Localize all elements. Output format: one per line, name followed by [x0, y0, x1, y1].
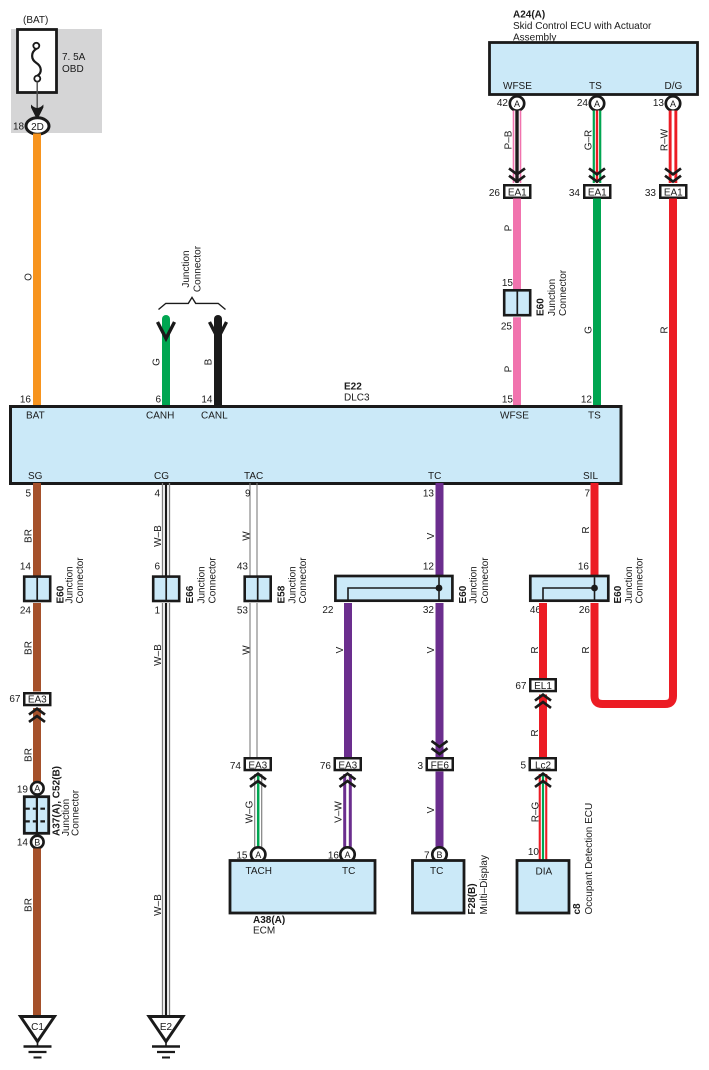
arrowhead CANH: [158, 322, 175, 339]
svg-text:E60: E60: [536, 298, 547, 316]
svg-text:10: 10: [528, 847, 540, 858]
wire R (red) EL1 to Lc2: [539, 695, 547, 759]
svg-text:G: G: [584, 326, 595, 334]
svg-text:74: 74: [230, 761, 242, 772]
wire V (violet) E60 pin22 to EA3 76: [344, 603, 352, 758]
svg-text:EA1: EA1: [588, 188, 607, 199]
ECU c8 Occupant Detection ECU: [517, 803, 595, 915]
pin B circle TC (Multi-Display): [432, 847, 446, 861]
wire G (green) EA1 to E22 pin 12: [593, 199, 601, 408]
svg-text:SG: SG: [28, 471, 43, 482]
svg-text:Connector: Connector: [635, 557, 646, 604]
DLC3 connector E22: [11, 382, 622, 484]
ground C1: [21, 1017, 55, 1058]
wire BR (brown) E22 SG to E60 junction: [33, 483, 41, 576]
svg-text:E60: E60: [458, 585, 469, 603]
svg-text:ECM: ECM: [253, 926, 275, 937]
svg-text:Connector: Connector: [298, 557, 309, 604]
arrow into 2D: [31, 105, 43, 121]
svg-text:43: 43: [237, 562, 249, 573]
svg-text:OBD: OBD: [62, 64, 84, 75]
junction connector A37(A), C52(B): [24, 797, 48, 834]
svg-text:6: 6: [155, 395, 161, 406]
arrow out of EA3 74 (up): [250, 774, 266, 787]
svg-text:R–G: R–G: [531, 801, 542, 822]
pin A circle A37: [31, 782, 44, 795]
svg-text:Connector: Connector: [193, 245, 204, 292]
svg-text:TC: TC: [428, 471, 441, 482]
svg-text:Occupant Detection ECU: Occupant Detection ECU: [584, 803, 595, 915]
brace junction connector: [159, 297, 226, 309]
svg-text:A: A: [344, 850, 350, 860]
wire G (green) CANH: [162, 319, 170, 407]
svg-text:22: 22: [322, 605, 334, 616]
wire BR (brown) E60 to EA3: [33, 603, 41, 692]
label Junction Connector (CAN): [181, 245, 204, 292]
svg-text:BR: BR: [24, 748, 35, 762]
junction connector E60 (red, wide): [530, 576, 608, 601]
wire O (orange) BAT to E22 pin 16: [33, 134, 41, 408]
svg-text:BAT: BAT: [26, 411, 45, 422]
label A37(A), C52(B) Junction Connector: [52, 766, 82, 836]
svg-text:W: W: [242, 531, 253, 541]
arrow out of EA3 76 (up): [340, 774, 356, 787]
svg-text:Junction: Junction: [197, 566, 208, 603]
label E60 Junction Connector (pink): [536, 269, 570, 316]
svg-text:W–G: W–G: [245, 800, 256, 823]
svg-text:16: 16: [20, 395, 32, 406]
svg-text:SIL: SIL: [583, 471, 598, 482]
svg-text:26: 26: [489, 188, 501, 199]
svg-text:E22: E22: [344, 382, 362, 393]
svg-text:13: 13: [653, 98, 665, 109]
label E66 Junction Connector: [185, 557, 219, 604]
svg-text:Connector: Connector: [208, 557, 219, 604]
svg-text:12: 12: [581, 395, 593, 406]
wire V (violet) E22 TC to E60 junction: [436, 483, 444, 576]
label E60 Junction Connector (violet): [458, 557, 491, 604]
svg-text:P: P: [504, 224, 515, 231]
svg-text:EA3: EA3: [338, 761, 357, 772]
svg-text:32: 32: [423, 605, 435, 616]
svg-text:W–B: W–B: [153, 644, 164, 666]
svg-text:WFSE: WFSE: [500, 411, 529, 422]
junction connector E60 (brown): [24, 577, 50, 601]
svg-text:E58: E58: [277, 585, 288, 603]
wire R (red) EA1 33 down, bend left to E60 pin 26: [595, 199, 674, 705]
svg-text:67: 67: [515, 681, 527, 692]
svg-text:26: 26: [579, 605, 591, 616]
svg-text:R: R: [530, 646, 541, 653]
pin A circle D/G: [666, 96, 680, 110]
wire R (red) E60 pin46 to EL1: [539, 603, 547, 679]
svg-text:G: G: [152, 358, 163, 366]
ground E2: [149, 1017, 183, 1058]
svg-text:1: 1: [154, 606, 160, 617]
svg-text:5: 5: [520, 761, 526, 772]
svg-text:24: 24: [577, 98, 589, 109]
svg-text:A: A: [514, 99, 520, 109]
arrow out of EL1 (up): [535, 695, 551, 708]
arrow into EA1 34: [589, 168, 605, 181]
svg-text:R: R: [530, 729, 541, 736]
svg-text:7. 5A: 7. 5A: [62, 52, 86, 63]
svg-text:13: 13: [423, 489, 435, 500]
svg-text:W–B: W–B: [153, 525, 164, 547]
ECU A38(A) ECM: [230, 861, 375, 937]
svg-text:24: 24: [20, 606, 32, 617]
svg-text:A: A: [594, 99, 600, 109]
arrow into FE6 (down): [432, 741, 448, 754]
svg-text:A24(A): A24(A): [513, 10, 545, 21]
svg-text:EA1: EA1: [508, 188, 527, 199]
svg-text:TC: TC: [342, 866, 355, 877]
svg-text:EA1: EA1: [664, 188, 683, 199]
wire V (violet) FE6 to Multi-Display TC: [436, 772, 444, 849]
label E58 Junction Connector: [277, 557, 310, 604]
svg-text:B: B: [436, 850, 442, 860]
wire V-W (violet/white) EA3 to ECM TC: [343, 774, 352, 848]
svg-text:BR: BR: [24, 641, 35, 655]
svg-text:c8: c8: [572, 903, 583, 915]
junction connector E60 (pink): [504, 290, 530, 315]
svg-text:O: O: [24, 273, 35, 281]
svg-text:TS: TS: [588, 411, 601, 422]
svg-text:E60: E60: [613, 585, 624, 603]
svg-text:16: 16: [578, 562, 590, 573]
pin A circle WFSE: [510, 96, 524, 110]
wire V (violet) E60 pin32 to FE6: [436, 603, 444, 758]
svg-text:53: 53: [237, 606, 249, 617]
svg-text:V: V: [335, 646, 346, 653]
wire G-R (green/red) TS to EA1: [593, 111, 602, 184]
svg-text:W–B: W–B: [153, 894, 164, 916]
svg-text:76: 76: [320, 761, 332, 772]
svg-text:14: 14: [20, 562, 32, 573]
svg-text:V: V: [426, 532, 437, 539]
svg-text:BR: BR: [24, 529, 35, 543]
svg-text:67: 67: [9, 694, 21, 705]
wire W-B (white/black) E66 to ground E2: [163, 603, 170, 1016]
svg-text:18: 18: [13, 122, 25, 133]
svg-text:P: P: [504, 365, 515, 372]
wire W (white) E22 TAC to E58 junction: [250, 483, 257, 576]
svg-text:G–R: G–R: [584, 130, 595, 151]
ECU F28(B) Multi-Display: [413, 855, 491, 914]
svg-text:R–W: R–W: [660, 128, 671, 151]
arrow out of Lc2 (up): [535, 774, 551, 787]
svg-text:V: V: [426, 806, 437, 813]
wire P-B (pink/black) WFSE to EA1: [513, 111, 522, 184]
svg-text:W: W: [242, 645, 253, 655]
arrow into EA1 26: [509, 168, 525, 181]
fuse OBD 7.5A: [18, 30, 86, 93]
svg-text:7: 7: [584, 489, 590, 500]
arrow out of EA3 (up): [29, 709, 45, 722]
svg-text:14: 14: [201, 395, 213, 406]
svg-text:14: 14: [17, 838, 29, 849]
svg-text:5: 5: [25, 489, 31, 500]
wire W-G (white/green) EA3 to ECM TACH: [255, 774, 262, 848]
svg-text:E66: E66: [185, 585, 196, 603]
svg-text:DLC3: DLC3: [344, 393, 370, 404]
svg-text:6: 6: [154, 562, 160, 573]
svg-text:CANL: CANL: [201, 411, 228, 422]
svg-text:Junction: Junction: [288, 566, 299, 603]
svg-text:Skid Control ECU with Actuator: Skid Control ECU with Actuator: [513, 21, 652, 32]
wire BR (brown) EA3 to A37 junction: [33, 708, 41, 782]
svg-text:EL1: EL1: [534, 681, 552, 692]
svg-text:Junction: Junction: [469, 566, 480, 603]
svg-text:A: A: [670, 99, 676, 109]
wire W (white) E58 to EA3 74: [250, 603, 257, 758]
svg-text:P–B: P–B: [504, 130, 515, 149]
svg-text:CG: CG: [154, 471, 169, 482]
connector 2D oval: [26, 118, 49, 134]
junction connector E58: [245, 577, 271, 601]
pin B circle A37: [31, 836, 44, 849]
wire fuse to connector 2D: [36, 82, 38, 111]
svg-text:FE6: FE6: [431, 761, 450, 772]
svg-text:EA3: EA3: [248, 761, 267, 772]
junction connector E66: [153, 577, 179, 601]
svg-text:BR: BR: [24, 898, 35, 912]
wire P (pink) E60 to E22 pin 15: [513, 317, 521, 407]
svg-text:Lc2: Lc2: [535, 761, 552, 772]
junction connector E60 (violet, wide): [335, 576, 452, 601]
wire R (red) E22 SIL to E60 junction: [591, 483, 599, 576]
svg-text:TAC: TAC: [244, 471, 263, 482]
pin A circle TS: [590, 96, 604, 110]
wire BR (brown) A37 to ground C1: [33, 849, 41, 1017]
svg-text:Junction: Junction: [65, 566, 76, 603]
svg-text:E2: E2: [160, 1022, 173, 1033]
svg-text:15: 15: [502, 278, 514, 289]
svg-text:Junction: Junction: [624, 566, 635, 603]
svg-text:33: 33: [645, 188, 657, 199]
svg-text:Junction: Junction: [547, 279, 558, 316]
svg-text:TC: TC: [430, 866, 443, 877]
svg-text:4: 4: [154, 489, 160, 500]
svg-text:CANH: CANH: [146, 411, 174, 422]
svg-text:A: A: [34, 784, 40, 794]
svg-text:Connector: Connector: [558, 269, 569, 316]
svg-text:R: R: [660, 326, 671, 333]
wire B (black) CANL: [214, 319, 222, 407]
svg-text:TACH: TACH: [246, 866, 272, 877]
svg-text:B: B: [204, 358, 215, 365]
arrowhead CANL: [210, 322, 227, 339]
label E60 Junction Connector (brown): [56, 557, 87, 604]
svg-text:Connector: Connector: [480, 557, 491, 604]
svg-text:DIA: DIA: [536, 867, 553, 878]
pin A circle TACH: [251, 847, 265, 861]
ECU A24(A) Skid Control ECU with Actuator Assembly: [490, 10, 698, 95]
svg-text:3: 3: [417, 761, 423, 772]
svg-text:V–W: V–W: [334, 801, 345, 823]
svg-text:34: 34: [569, 188, 581, 199]
battery supply shaded block: [11, 29, 102, 133]
svg-text:A38(A): A38(A): [253, 915, 285, 926]
svg-text:F28(B): F28(B): [467, 883, 478, 914]
svg-text:WFSE: WFSE: [503, 81, 532, 92]
svg-text:2D: 2D: [31, 122, 44, 133]
svg-text:15: 15: [502, 395, 514, 406]
svg-text:R: R: [581, 526, 592, 533]
svg-text:(BAT): (BAT): [23, 15, 48, 26]
svg-text:Junction: Junction: [181, 250, 192, 287]
svg-text:Connector: Connector: [71, 789, 82, 836]
svg-text:C1: C1: [31, 1022, 44, 1033]
svg-text:R: R: [581, 646, 592, 653]
svg-text:9: 9: [245, 489, 251, 500]
svg-text:25: 25: [501, 322, 513, 333]
svg-text:EA3: EA3: [28, 695, 47, 706]
svg-text:D/G: D/G: [665, 81, 683, 92]
svg-text:TS: TS: [589, 81, 602, 92]
wire P (pink) EA1 to E60 junction: [513, 199, 521, 291]
label E60 Junction Connector (red): [613, 557, 646, 604]
svg-text:V: V: [426, 646, 437, 653]
pin A circle TC: [340, 847, 354, 861]
arrow into EA1 33: [665, 168, 681, 181]
wire R-G (red/green) Lc2 to Occupant Detection ECU: [539, 774, 548, 860]
svg-text:A: A: [255, 850, 261, 860]
wire W-B (white/black) E22 CG to E66 junction: [163, 483, 170, 576]
svg-text:12: 12: [423, 562, 435, 573]
svg-text:B: B: [34, 837, 40, 847]
svg-text:Connector: Connector: [75, 557, 86, 604]
wire R-W (red/white) D/G to EA1: [669, 111, 678, 184]
svg-text:Multi–Display: Multi–Display: [479, 855, 490, 914]
svg-text:42: 42: [497, 98, 509, 109]
svg-text:19: 19: [17, 785, 29, 796]
